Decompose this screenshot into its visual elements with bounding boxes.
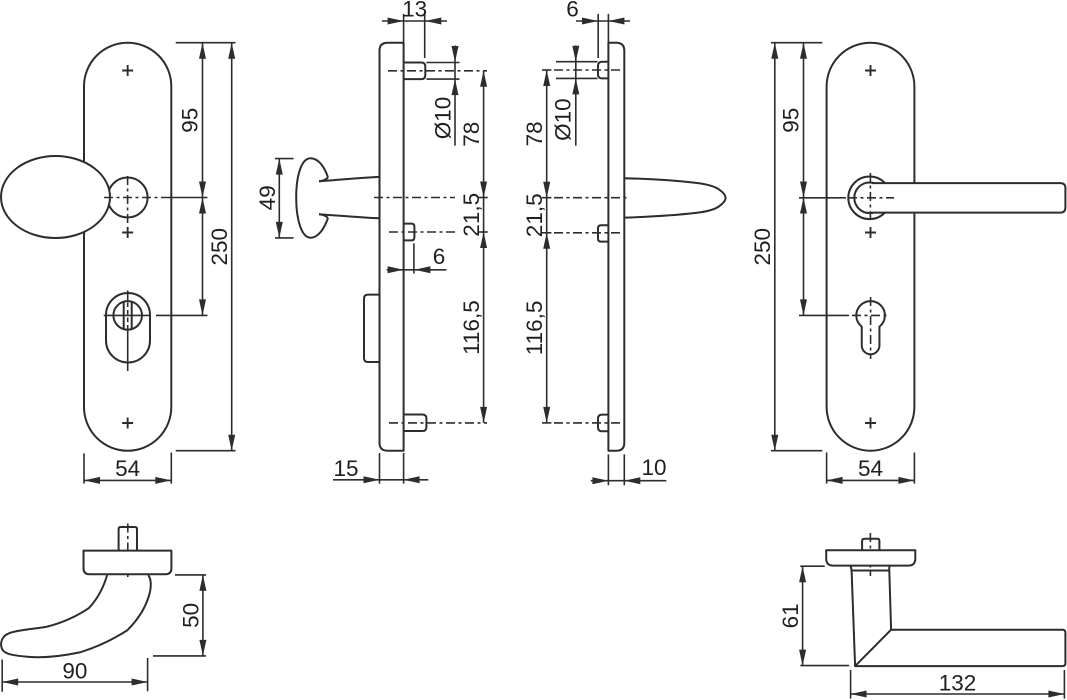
side plate lever <box>608 43 624 451</box>
extension line bottom right <box>771 450 822 452</box>
screw mark bottom right plate <box>865 418 876 429</box>
lever miter edge <box>855 630 891 666</box>
dimension line 10dia lever side <box>575 46 577 146</box>
cylinder protection oval <box>106 293 150 363</box>
lever spindle stub <box>862 539 879 551</box>
svg-text:116,5: 116,5 <box>522 301 547 356</box>
spindle follower lever side <box>598 225 608 241</box>
cylinder circle <box>113 301 142 330</box>
bottom screw centerline lever side <box>542 422 551 424</box>
dimension line 54 left <box>84 479 171 481</box>
svg-text:21,5: 21,5 <box>459 193 484 237</box>
spindle follower side <box>404 224 415 241</box>
knob oval <box>1 156 110 238</box>
follower centerline side <box>389 231 455 233</box>
dimension line 250 left <box>231 43 233 451</box>
cylinder key slot <box>124 302 132 330</box>
knob horizontal centerline <box>104 197 163 199</box>
svg-text:Ø10: Ø10 <box>551 98 576 141</box>
svg-text:6: 6 <box>433 244 446 269</box>
keyhole horizontal centerline <box>799 314 849 316</box>
lever spindle centerline <box>869 533 871 576</box>
screw mark top right plate <box>865 65 876 76</box>
dimension line 50 <box>202 575 204 656</box>
main dimension line lever side 78 21,5 116,5 <box>546 70 548 423</box>
dimension line 132 <box>851 693 1065 695</box>
svg-text:250: 250 <box>207 228 232 266</box>
lever centerline side <box>542 197 551 199</box>
dimension line 13 <box>382 20 447 22</box>
cylinder horizontal centerline <box>104 314 208 316</box>
dimension 10dia extension lines lever side <box>556 62 598 79</box>
screw mark mid right plate <box>865 227 876 238</box>
dimension line 10 bottom lever side <box>591 480 667 482</box>
svg-text:116,5: 116,5 <box>459 300 484 355</box>
dimension 61 extension lines <box>800 566 849 665</box>
keyhole vertical centerline <box>870 297 872 359</box>
dimension 6 extension lines lever side <box>598 14 608 58</box>
svg-text:90: 90 <box>62 658 87 683</box>
dimension line 95 right <box>803 43 805 316</box>
extension lines 54 left <box>84 453 171 484</box>
knob spindle centerline <box>127 524 129 581</box>
dimension line 54 right <box>827 479 915 481</box>
extension line bottom left <box>176 450 236 452</box>
knob spindle stub <box>119 527 137 551</box>
svg-text:15: 15 <box>333 456 358 481</box>
lever collar <box>851 566 890 571</box>
lever handle side profile <box>624 178 725 217</box>
knob neck bottom line <box>319 214 328 218</box>
svg-text:54: 54 <box>115 456 140 481</box>
dimension line 49 <box>278 159 280 238</box>
dimension line 61 <box>802 566 804 665</box>
dimension line 6 left view <box>387 269 447 271</box>
knob body <box>1 575 151 657</box>
bottom fixing screw lever side <box>598 415 608 432</box>
lever boss inner circle <box>854 183 885 214</box>
main dimension line left view 78 21,5 116,5 <box>483 71 485 423</box>
dimension 49 extension lines <box>275 159 294 238</box>
follower centerline lever side <box>542 232 551 234</box>
cylinder vertical centerline <box>127 291 129 372</box>
svg-text:49: 49 <box>255 185 280 210</box>
dimension 6 extension line left view <box>413 243 415 273</box>
bottom screw centerline side <box>389 422 487 424</box>
knob centerline side <box>374 197 455 199</box>
dimension 10dia extension lines left view <box>426 63 459 80</box>
lever boss vertical centerline <box>869 173 871 222</box>
dimension 50 extension lines <box>153 575 206 656</box>
dimension line 250 right <box>774 43 776 451</box>
svg-text:Ø10: Ø10 <box>431 97 456 140</box>
svg-text:78: 78 <box>522 121 547 146</box>
profile cylinder keyhole <box>856 301 885 354</box>
knob center extension line <box>163 197 208 199</box>
dimension 132 extension lines <box>851 670 1065 699</box>
screw mark bottom left plate <box>122 418 133 429</box>
top screw centerline lever side <box>542 69 551 71</box>
extension lines 54 right <box>827 453 915 484</box>
svg-text:132: 132 <box>939 670 977 695</box>
dimension 10 extension lines bottom lever side <box>608 454 624 485</box>
dimension line 15 <box>333 479 428 481</box>
bottom fixing screw side <box>404 415 427 432</box>
knob cap side <box>296 158 328 238</box>
screw mark top left plate <box>122 65 133 76</box>
side plate knob <box>380 43 404 451</box>
lever neck and grip outline <box>852 571 1066 667</box>
svg-text:95: 95 <box>779 108 804 133</box>
dimension line 6 lever side <box>576 20 630 22</box>
svg-text:54: 54 <box>858 456 883 481</box>
svg-text:61: 61 <box>778 603 803 628</box>
svg-text:78: 78 <box>459 122 484 147</box>
screw mark mid left plate <box>122 227 133 238</box>
cylinder housing side <box>364 295 380 362</box>
svg-text:10: 10 <box>641 455 666 480</box>
svg-text:21,5: 21,5 <box>522 193 547 237</box>
dimension line 90 <box>2 681 147 683</box>
dimension 90 extension lines <box>2 658 147 692</box>
svg-text:6: 6 <box>566 0 579 22</box>
dimension line 95 left <box>202 43 204 316</box>
dimension 13 extension lines <box>404 14 425 58</box>
lever boss horizontal centerline <box>799 197 846 199</box>
backplate left <box>84 43 171 451</box>
svg-text:250: 250 <box>750 228 775 266</box>
extension line top right <box>771 42 822 44</box>
dimension line 10dia left view <box>454 46 456 146</box>
dimension 15 extension lines <box>380 453 404 484</box>
knob vertical centerline <box>127 176 129 224</box>
extension line top left <box>176 42 236 44</box>
top screw centerline side <box>388 70 487 72</box>
knob flange <box>84 551 172 575</box>
lever boss outer circle <box>848 177 891 220</box>
svg-text:50: 50 <box>178 603 203 628</box>
knob neck top line <box>319 178 328 182</box>
backplate right <box>827 43 915 451</box>
svg-text:95: 95 <box>178 108 203 133</box>
knob neck circle <box>108 178 148 218</box>
top fixing screw lever side <box>598 62 608 79</box>
svg-text:13: 13 <box>402 0 427 22</box>
top fixing screw side <box>404 63 426 80</box>
lever bar <box>872 183 1065 213</box>
lever rose flange <box>826 550 915 565</box>
